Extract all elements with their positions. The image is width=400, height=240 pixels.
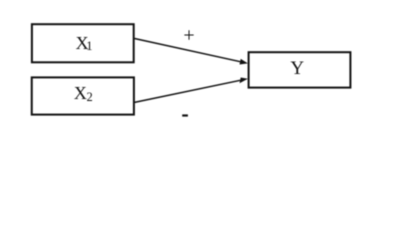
box Y: [249, 52, 351, 87]
minus sign on X2 arrow: [182, 114, 188, 116]
wire arrow X1 to Y: [135, 39, 241, 62]
arrowhead X2 to Y: [240, 78, 248, 84]
box X2: [32, 77, 134, 114]
box X1: [32, 24, 134, 62]
arrowhead X1 to Y: [240, 59, 248, 65]
wire arrow X2 to Y: [135, 80, 241, 102]
svg-text:+: +: [183, 24, 194, 46]
svg-text:Y: Y: [290, 58, 304, 79]
